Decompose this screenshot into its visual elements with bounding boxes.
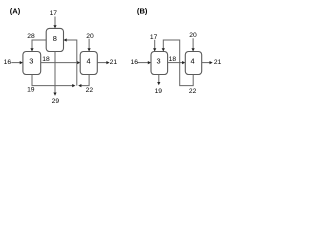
svg-text:16: 16 — [130, 59, 138, 66]
svg-text:29: 29 — [52, 98, 60, 105]
svg-text:19: 19 — [27, 87, 35, 94]
svg-text:16: 16 — [4, 59, 12, 66]
wire 20 into unit 4 top — [88, 39, 90, 49]
svg-text:(B): (B) — [137, 6, 148, 15]
wire 21 out of unit 4 right — [97, 62, 107, 64]
recycle wire from junction up into unit 8 right — [66, 40, 77, 86]
svg-text:20: 20 — [86, 33, 94, 40]
wire 19 out of unit 3 bottom (B) — [158, 75, 160, 83]
wire 21 out of unit 4 right (B) — [202, 62, 211, 64]
svg-text:18: 18 — [42, 56, 50, 63]
unit 3 box (B) — [151, 52, 168, 75]
svg-text:17: 17 — [50, 10, 58, 17]
svg-text:22: 22 — [86, 87, 94, 94]
wire 20 into unit 4 top (B) — [192, 38, 194, 49]
svg-text:21: 21 — [214, 59, 222, 66]
svg-text:18: 18 — [169, 56, 177, 63]
svg-text:19: 19 — [155, 88, 163, 95]
svg-text:21: 21 — [110, 59, 118, 66]
svg-text:22: 22 — [189, 88, 197, 95]
wire 16 into unit 3 left — [11, 62, 20, 64]
unit 4 box (B) — [185, 52, 201, 75]
wire 22 recycle from unit 4 bottom to unit 3 top (B) — [163, 40, 193, 86]
svg-text:20: 20 — [189, 32, 197, 39]
unit 8 box — [46, 28, 63, 51]
svg-text:(A): (A) — [10, 6, 21, 15]
wire 22 from unit 4 bottom to junction — [81, 75, 90, 86]
svg-text:3: 3 — [29, 56, 33, 65]
unit 3 box (A) — [23, 52, 41, 75]
svg-text:3: 3 — [156, 56, 160, 65]
wire 17 into unit 8 top — [54, 17, 56, 27]
wire 18 from unit 3 to unit 4 (B) — [168, 62, 183, 64]
wire 28 from unit 8 left to unit 3 top — [32, 40, 46, 49]
svg-text:17: 17 — [150, 34, 158, 41]
unit 4 box (A) — [80, 52, 97, 75]
wire 16 into unit 3 left (B) — [138, 62, 149, 64]
wire 17 into unit 3 top (B) — [154, 40, 156, 49]
svg-text:8: 8 — [53, 34, 57, 43]
wire 18 from unit 3 to unit 4 — [41, 62, 78, 64]
wire 19 from unit 3 bottom to junction — [32, 75, 73, 86]
svg-text:28: 28 — [27, 33, 35, 40]
svg-text:4: 4 — [190, 56, 194, 65]
svg-text:4: 4 — [87, 56, 91, 65]
wire 29 from unit 8 bottom down — [54, 52, 56, 94]
